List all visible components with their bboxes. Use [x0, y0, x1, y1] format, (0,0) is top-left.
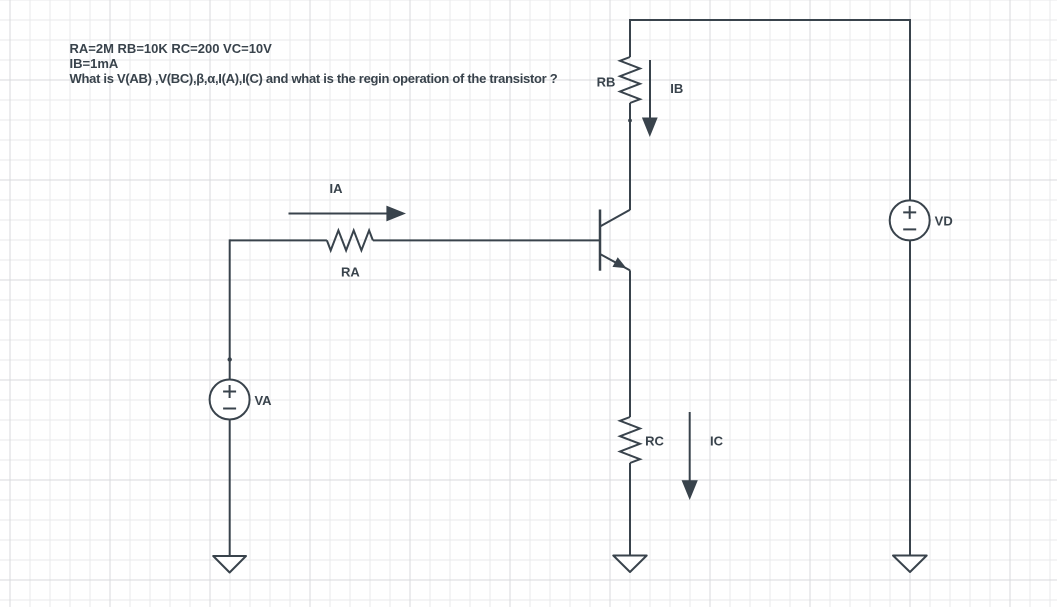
svg-text:VA: VA — [254, 393, 272, 408]
resistor RB — [620, 57, 640, 103]
source VA minus sign — [223, 408, 236, 410]
svg-text:IA: IA — [330, 181, 344, 196]
source VD minus sign — [903, 228, 916, 230]
current arrow IA head — [386, 206, 406, 222]
transistor Q1 base bar — [599, 210, 602, 271]
svg-text:IC: IC — [710, 434, 724, 449]
wire RC bottom to center ground — [629, 463, 631, 556]
source VD circle — [890, 200, 930, 240]
wire VD bottom to right ground — [909, 240, 911, 555]
svg-text:RB: RB — [597, 75, 616, 90]
ground left — [213, 556, 246, 573]
current arrow IB head — [642, 118, 658, 138]
wire right rail down to VD plus terminal — [909, 19, 911, 201]
junction dot on collector wire — [628, 119, 632, 123]
svg-text:What is V(AB) ,V(BC),β,α,I(A),: What is V(AB) ,V(BC),β,α,I(A),I(C) and w… — [70, 71, 558, 86]
svg-text:VD: VD — [935, 213, 953, 228]
ground right — [893, 556, 927, 573]
wire VA bottom to left ground — [229, 420, 231, 557]
source VD plus sign — [903, 206, 916, 219]
transistor Q1 emitter arrowhead — [613, 257, 627, 268]
source VA plus sign — [223, 385, 236, 398]
current arrow IA stem — [289, 213, 387, 215]
wire from RB top up to top rail corner — [629, 20, 631, 57]
resistor RA — [327, 230, 373, 250]
wire top rail horizontal — [629, 19, 910, 21]
wire RB bottom to transistor collector — [629, 103, 631, 210]
current arrow IC stem — [689, 412, 691, 481]
transistor Q1 emitter lead — [600, 254, 630, 270]
source VA circle — [210, 380, 250, 420]
current arrow IC head — [682, 480, 698, 500]
resistor RC — [620, 417, 640, 463]
wire base to left rail corner and down to junction — [373, 239, 600, 241]
wire emitter down to RC — [629, 270, 631, 417]
svg-text:RA=2M RB=10K RC=200 VC=10V: RA=2M RB=10K RC=200 VC=10V — [70, 41, 273, 56]
svg-text:IB: IB — [670, 81, 683, 96]
wire left rail down to VA — [229, 239, 231, 379]
transistor Q1 collector lead — [600, 210, 630, 227]
svg-text:RC: RC — [645, 434, 664, 449]
svg-text:RA: RA — [341, 264, 360, 279]
svg-text:IB=1mA: IB=1mA — [70, 56, 119, 71]
current arrow IB stem — [649, 60, 651, 118]
junction dot node A — [228, 357, 232, 361]
ground center — [613, 556, 646, 573]
wire RA left to corner — [230, 239, 327, 241]
